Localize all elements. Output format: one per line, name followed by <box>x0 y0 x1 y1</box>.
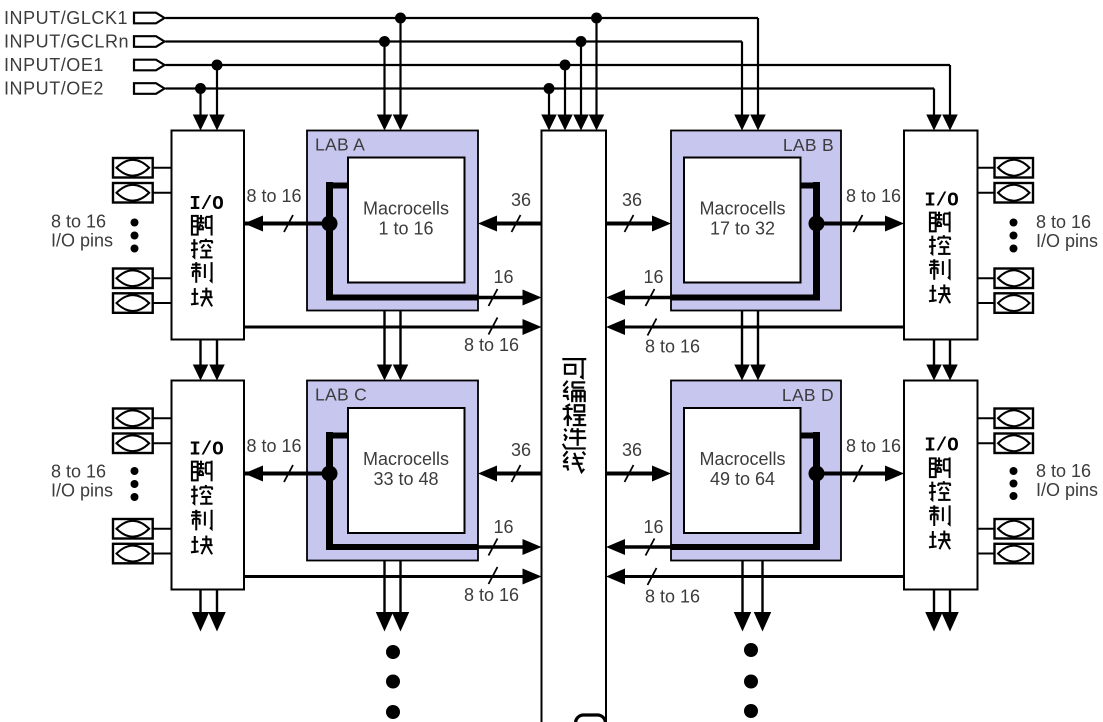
svg-text:I/O: I/O <box>924 435 958 457</box>
svg-text:LAB C: LAB C <box>315 385 367 405</box>
svg-text:16: 16 <box>493 517 513 537</box>
svg-text:INPUT/OE1: INPUT/OE1 <box>4 55 104 75</box>
svg-text:8 to 16: 8 to 16 <box>464 585 519 605</box>
svg-text:I/O pins: I/O pins <box>51 481 113 501</box>
svg-text:33 to 48: 33 to 48 <box>373 469 438 489</box>
svg-text:8 to 16: 8 to 16 <box>51 462 106 482</box>
svg-text:I/O pins: I/O pins <box>1036 480 1098 500</box>
svg-text:17 to 32: 17 to 32 <box>710 219 775 239</box>
svg-text:Macrocells: Macrocells <box>699 449 785 469</box>
svg-text:I/O pins: I/O pins <box>1036 231 1098 251</box>
svg-text:LAB D: LAB D <box>782 385 834 405</box>
svg-text:LAB A: LAB A <box>315 135 365 155</box>
svg-text:8 to 16: 8 to 16 <box>1036 461 1091 481</box>
svg-text:36: 36 <box>511 190 531 210</box>
svg-text:Macrocells: Macrocells <box>363 449 449 469</box>
svg-text:Macrocells: Macrocells <box>699 199 785 219</box>
svg-text:16: 16 <box>643 267 663 287</box>
svg-text:8 to 16: 8 to 16 <box>846 436 901 456</box>
svg-text:16: 16 <box>643 517 663 537</box>
svg-text:INPUT/GLCK1: INPUT/GLCK1 <box>4 8 128 28</box>
svg-text:1 to 16: 1 to 16 <box>378 219 433 239</box>
svg-text:8 to 16: 8 to 16 <box>51 212 106 232</box>
svg-text:8 to 16: 8 to 16 <box>246 186 301 206</box>
svg-text:8 to 16: 8 to 16 <box>645 587 700 607</box>
svg-text:I/O: I/O <box>189 193 223 215</box>
svg-text:16: 16 <box>493 267 513 287</box>
svg-text:I/O: I/O <box>189 439 223 461</box>
svg-text:8 to 16: 8 to 16 <box>246 436 301 456</box>
svg-text:I/O: I/O <box>924 190 958 212</box>
svg-text:8 to 16: 8 to 16 <box>464 335 519 355</box>
svg-text:8 to 16: 8 to 16 <box>645 337 700 357</box>
svg-text:INPUT/GCLRn: INPUT/GCLRn <box>4 32 129 52</box>
svg-text:49 to 64: 49 to 64 <box>710 469 775 489</box>
svg-text:I/O pins: I/O pins <box>51 231 113 251</box>
svg-text:8 to 16: 8 to 16 <box>846 186 901 206</box>
svg-text:Macrocells: Macrocells <box>363 199 449 219</box>
svg-text:8 to 16: 8 to 16 <box>1036 212 1091 232</box>
svg-text:LAB B: LAB B <box>783 135 834 155</box>
svg-text:36: 36 <box>511 440 531 460</box>
svg-text:36: 36 <box>622 440 642 460</box>
svg-text:36: 36 <box>622 190 642 210</box>
svg-text:INPUT/OE2: INPUT/OE2 <box>4 79 104 99</box>
